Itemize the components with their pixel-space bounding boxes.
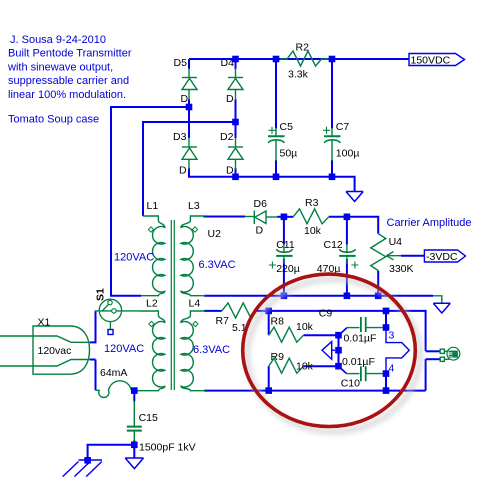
inductor L4 secondary winding (181, 311, 205, 391)
svg-text:3: 3 (389, 330, 395, 342)
wire: ground stub under C7 bus (412, 295, 433, 297)
svg-text:L4: L4 (189, 298, 201, 310)
ground symbol under C7 bus (346, 192, 363, 202)
junction: R3-C12 node (344, 214, 351, 221)
svg-text:Built Pentode Transmitter: Built Pentode Transmitter (8, 48, 132, 60)
wire: D6 to R3 node (277, 216, 287, 218)
svg-text:U2: U2 (208, 228, 222, 240)
wire: D5 top lead (188, 59, 190, 69)
svg-text:C12: C12 (324, 239, 343, 251)
wire: R8 input lead (268, 311, 270, 335)
transformer T1 core (171, 220, 174, 390)
wire: R3 left lead (284, 216, 293, 218)
wire: D2 bottom lead (235, 168, 237, 177)
svg-text:3.3k: 3.3k (288, 69, 309, 81)
junction: bus at C12 bottom (344, 293, 351, 300)
junction: bus at C11 bottom (281, 293, 288, 300)
svg-text:Tomato Soup case: Tomato Soup case (8, 114, 99, 126)
capacitor C11 (269, 239, 300, 275)
svg-text:D: D (226, 93, 234, 105)
junction: C15 bottom node (131, 442, 138, 449)
junction: C10 right / net 4 (383, 370, 390, 377)
wire: R8 output to summing node (304, 334, 339, 336)
capacitor C15 (127, 401, 196, 454)
junction: D6-R3-C11 node (281, 214, 288, 221)
net flag 3 and 4 chevron (386, 328, 409, 374)
junction: top rail at C7 (329, 56, 336, 63)
svg-text:120VAC: 120VAC (114, 252, 154, 264)
svg-text:R3: R3 (305, 197, 319, 209)
connector X1 (0, 326, 90, 374)
svg-text:C10: C10 (341, 378, 360, 390)
red highlight ellipse shadow (247, 279, 420, 431)
inductor L3 secondary winding (181, 216, 205, 296)
svg-text:D: D (179, 165, 187, 177)
wire: output pin 2 stub (426, 358, 440, 360)
svg-text:D6: D6 (254, 198, 268, 210)
junction: summing node mid (335, 347, 342, 354)
svg-text:10k: 10k (296, 361, 314, 373)
resistor R9 (269, 358, 304, 373)
capacitor C9 (319, 308, 384, 345)
svg-text:C15: C15 (139, 412, 158, 424)
fuse F1 64mA (96, 381, 132, 398)
svg-text:X1: X1 (38, 317, 51, 329)
svg-text:10k: 10k (304, 225, 322, 237)
L1 phase dot (148, 227, 153, 232)
capacitor C7 (323, 121, 359, 161)
junction: ground bus at C7 (329, 174, 336, 181)
wire: C10 diagonal stub (340, 368, 347, 374)
svg-text:120VAC: 120VAC (104, 343, 144, 355)
wire: +150V top rail (189, 58, 409, 60)
svg-text:L2: L2 (146, 298, 158, 310)
wire: D3 lead (188, 107, 190, 138)
inductor L2 primary winding (137, 311, 165, 391)
svg-text:120vac: 120vac (38, 345, 72, 357)
junction: chassis ground node (84, 457, 91, 464)
wire: modulator box right edge lower (425, 359, 427, 390)
svg-text:D2: D2 (220, 131, 234, 143)
svg-text:D4: D4 (221, 57, 235, 69)
svg-text:L1: L1 (147, 200, 159, 212)
svg-text:R8: R8 (271, 316, 285, 328)
diode D5 (182, 68, 197, 100)
svg-text:330K: 330K (389, 263, 414, 275)
junction: summing node bottom (335, 363, 342, 370)
svg-text:D5: D5 (174, 57, 188, 69)
svg-text:50µ: 50µ (280, 148, 298, 160)
wire: D4 cathode to L1 top (143, 99, 236, 216)
junction: bus at U4 bottom (375, 293, 382, 300)
wire: C11 top lead (283, 217, 285, 245)
diode D6 (245, 211, 278, 225)
svg-text:R2: R2 (296, 42, 310, 54)
svg-text:R9: R9 (271, 351, 285, 363)
wire: S1 to X1 pin 1 (90, 311, 96, 343)
wire: C9 node down from bus (385, 311, 387, 328)
svg-text:linear 100% modulation.: linear 100% modulation. (8, 89, 126, 101)
150VDC net flag (409, 54, 465, 67)
wire: fuse to L2 bottom and C15 (133, 391, 135, 402)
svg-text:64mA: 64mA (100, 367, 127, 379)
wire: ground bus under bridge and C5 C7 (189, 168, 355, 191)
junction: R7 out / R8 (265, 308, 272, 315)
svg-text:J. Sousa 9-24-2010: J. Sousa 9-24-2010 (10, 34, 106, 46)
svg-text:D: D (256, 225, 264, 237)
svg-text:6.3VAC: 6.3VAC (193, 344, 230, 356)
inverter triangle at summing node (322, 342, 335, 360)
resistor R3 (293, 209, 329, 224)
svg-text:C11: C11 (276, 239, 295, 251)
wire: R9 input lead (268, 366, 270, 390)
-3VDC net flag (424, 250, 465, 263)
svg-text:10k: 10k (296, 321, 314, 333)
junction: ground bus at C5 (273, 174, 280, 181)
red highlight ellipse (243, 274, 416, 426)
svg-text:U4: U4 (389, 236, 403, 248)
capacitor C12 (317, 239, 359, 275)
svg-text:100µ: 100µ (336, 148, 360, 160)
wire: D5 cathode to D3 anode node (111, 99, 189, 296)
L3 phase dot (192, 227, 197, 232)
wire: heater bottom bus (204, 390, 426, 392)
svg-text:-3VDC: -3VDC (426, 251, 458, 263)
wire: C12 top lead (346, 217, 348, 245)
wire: C15 ground stub (133, 445, 135, 458)
svg-text:4: 4 (389, 363, 395, 375)
title text block (7, 34, 132, 126)
svg-text:6.3VAC: 6.3VAC (199, 259, 236, 271)
svg-text:D: D (181, 93, 189, 105)
svg-text:1500pF 1kV: 1500pF 1kV (139, 442, 196, 454)
wire: R7 left lead (204, 310, 222, 312)
wire: L3 top to D6 (203, 216, 245, 218)
junction: ground bus at D2 (232, 174, 239, 181)
wire: C10 node to bottom bus (385, 374, 387, 391)
wire: R3 right lead to C12 node (329, 216, 347, 218)
wire: C5 top lead (275, 59, 277, 129)
wire: secondary common bus L3 bottom (204, 295, 412, 297)
wire: C7 top lead (331, 59, 333, 129)
wire: U4 bottom lead (377, 271, 379, 296)
svg-text:Carrier Amplitude: Carrier Amplitude (387, 217, 472, 229)
wire: C12 node to U4 top (347, 217, 378, 234)
junction: bottom bus at C10 column (383, 387, 390, 394)
junction: top rail at C5 (273, 56, 280, 63)
chassis ground (earth) (63, 460, 102, 477)
output jack connector (440, 347, 460, 361)
ground symbol right of U4 (433, 296, 450, 313)
ground symbol under C15 (125, 458, 143, 469)
wire: D4 top lead (235, 59, 237, 69)
wire: R7 output bus to modulator box (256, 311, 425, 351)
L2 phase dot (149, 321, 154, 326)
svg-text:C9: C9 (319, 308, 333, 320)
svg-text:R7: R7 (216, 315, 230, 327)
wire: C15 bottom to grounds (88, 440, 135, 460)
wire: U4 wiper to -3VDC flag (401, 255, 424, 257)
capacitor C10 (341, 356, 384, 390)
junction: D4-D2 node (232, 119, 239, 126)
wire: summing node column (338, 335, 340, 366)
wire: C7 bottom lead (331, 160, 333, 177)
junction: bus2 at C9 column (383, 308, 390, 315)
diode D4 (228, 68, 243, 100)
svg-text:D3: D3 (173, 131, 187, 143)
svg-text:L3: L3 (188, 200, 200, 212)
junction: fuse-L2-C15 node (131, 387, 138, 394)
wire: D2 lead (235, 122, 237, 138)
svg-text:suppressable carrier and: suppressable carrier and (8, 75, 129, 87)
junction: D5-D3 node (186, 104, 193, 111)
wire: X1 pin 2 to fuse (90, 360, 96, 391)
wire: R9 output to summing node (304, 365, 339, 367)
potentiometer U4 (371, 234, 414, 275)
resistor R2 (280, 51, 329, 66)
svg-text:C5: C5 (280, 121, 294, 133)
junction: top rail at D4 (232, 56, 239, 63)
capacitor C5 (268, 121, 297, 161)
wire: C12 bottom lead (346, 259, 348, 296)
switch S1 (95, 288, 141, 335)
junction: C9 right / net 3 (383, 324, 390, 331)
L4 phase dot (193, 321, 198, 326)
inductor L1 primary winding (141, 216, 165, 296)
svg-text:S1: S1 (95, 288, 107, 301)
svg-text:with sinewave output,: with sinewave output, (7, 61, 113, 73)
junction: bottom bus at R9 (265, 387, 272, 394)
wire: C11 bottom lead (283, 259, 285, 296)
wire: C9 diagonal stub (340, 328, 347, 334)
diode D2 (228, 138, 243, 170)
diode D3 (182, 138, 197, 170)
junction: summing node top (335, 332, 342, 339)
resistor R7 (222, 303, 257, 318)
resistor R8 (269, 327, 304, 342)
svg-text:220µ: 220µ (276, 263, 300, 275)
wire: output pin 1 stub (426, 350, 440, 352)
svg-text:0.01µF: 0.01µF (344, 333, 377, 345)
svg-text:150VDC: 150VDC (411, 55, 451, 67)
svg-text:0.01µF: 0.01µF (342, 356, 375, 368)
wire: C5 bottom lead (275, 160, 277, 177)
svg-text:C7: C7 (336, 121, 350, 133)
